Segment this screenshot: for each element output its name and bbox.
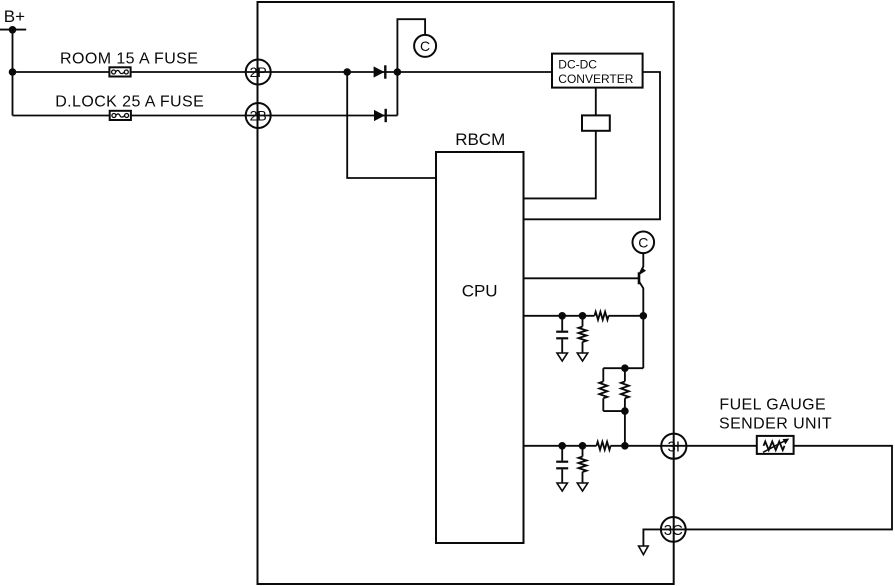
wire net2 left: [524, 445, 597, 447]
svg-text:3I: 3I: [668, 439, 681, 456]
wire DC-DC bottom: [595, 88, 597, 116]
capacitor C1: [556, 316, 568, 353]
fuse D.LOCK 25A: [110, 111, 131, 120]
ground: [577, 353, 587, 361]
junction dot: [558, 442, 566, 450]
wire net2 right: [611, 445, 757, 447]
connector C (lower): [633, 232, 655, 254]
wire net1 right: [609, 315, 644, 317]
wire diode2 riser: [396, 72, 398, 116]
ground: [557, 483, 567, 491]
DC-DC converter box: [552, 54, 643, 88]
connector 2B: [246, 103, 271, 128]
variable resistor (sender unit): [757, 436, 794, 454]
resistor R5 (horizontal): [597, 442, 611, 450]
junction dot: [621, 407, 629, 415]
component box (coil): [582, 115, 610, 130]
wire to net2: [624, 411, 626, 446]
diode D2: [374, 109, 386, 122]
capacitor C2: [556, 446, 568, 483]
junction dot: [394, 68, 402, 76]
wire ROOM feed: [13, 71, 553, 73]
wire coil to CPU: [524, 131, 596, 199]
wire: [12, 30, 14, 116]
battery terminal bar: [0, 29, 26, 31]
ground: [577, 483, 587, 491]
svg-text:3C: 3C: [664, 522, 683, 539]
resistor R3 (parallel left): [599, 368, 607, 411]
wire to connector C top: [397, 19, 425, 72]
junction dot: [640, 312, 648, 320]
ground: [639, 546, 649, 555]
transistor Q1: [639, 253, 646, 316]
wire emitter down: [642, 316, 644, 368]
svg-text:CONVERTER: CONVERTER: [558, 72, 633, 86]
CPU box: [436, 152, 524, 543]
junction dot B+: [9, 26, 17, 34]
svg-text:B+: B+: [4, 7, 25, 26]
connector C (top): [414, 35, 436, 57]
wire net1 left: [524, 315, 595, 317]
connector 2P: [246, 60, 271, 85]
svg-text:SENDER UNIT: SENDER UNIT: [719, 416, 832, 433]
junction dot: [343, 68, 351, 76]
junction dot: [579, 442, 587, 450]
diode D1: [374, 65, 386, 78]
resistor R1 (horizontal): [595, 312, 609, 320]
svg-text:2B: 2B: [250, 108, 267, 124]
ground: [557, 353, 567, 361]
resistor R4 (parallel right): [621, 368, 629, 411]
wire transistor base: [524, 277, 639, 279]
svg-text:RBCM: RBCM: [455, 130, 505, 149]
fuse ROOM 15A: [109, 67, 130, 76]
module box: [258, 2, 674, 584]
wire DC-DC right loop: [524, 72, 661, 219]
connector 3I: [661, 434, 686, 459]
svg-text:CPU: CPU: [462, 281, 498, 300]
wire D.LOCK feed: [13, 115, 398, 117]
svg-text:D.LOCK 25 A FUSE: D.LOCK 25 A FUSE: [55, 94, 204, 111]
junction dot: [621, 364, 629, 372]
connector 3C: [661, 517, 686, 542]
junction dot: [579, 312, 587, 320]
junction dot: [9, 68, 17, 76]
svg-text:C: C: [420, 38, 430, 54]
svg-text:ROOM 15 A FUSE: ROOM 15 A FUSE: [60, 51, 198, 68]
svg-text:2P: 2P: [250, 64, 267, 80]
svg-text:C: C: [638, 234, 648, 250]
resistor R2 (vertical): [579, 316, 587, 353]
junction dot: [621, 442, 629, 450]
svg-text:DC-DC: DC-DC: [558, 57, 597, 71]
svg-text:FUEL GAUGE: FUEL GAUGE: [719, 397, 826, 414]
wire parallel top bar: [603, 367, 643, 369]
wire to RBCM left: [347, 72, 436, 178]
wire parallel bottom bar: [603, 410, 625, 412]
junction dot: [558, 312, 566, 320]
wire sender loop: [643, 446, 892, 546]
resistor R6 (vertical): [579, 446, 587, 483]
